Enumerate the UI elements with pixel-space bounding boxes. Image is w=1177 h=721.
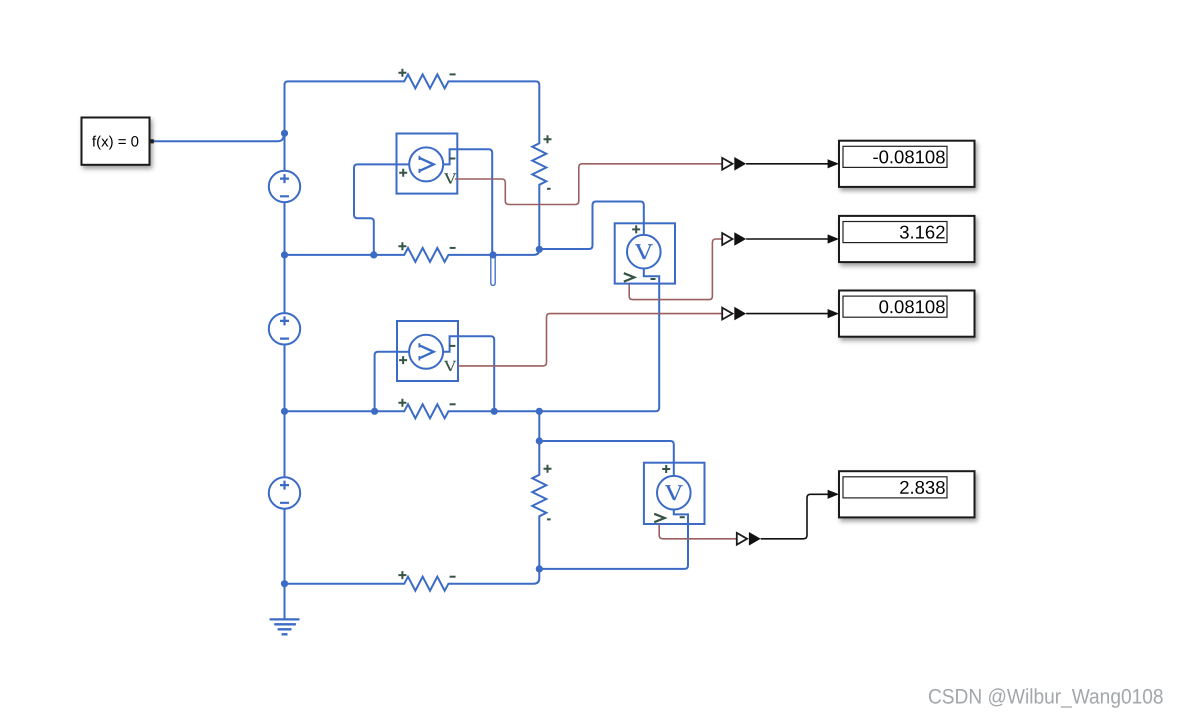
svg-text:0.08108: 0.08108 [879, 296, 946, 317]
svg-text:2.838: 2.838 [899, 477, 945, 498]
svg-text:-0.08108: -0.08108 [872, 146, 945, 167]
svg-text:3.162: 3.162 [899, 221, 945, 242]
svg-text:f(x) = 0: f(x) = 0 [92, 133, 139, 150]
svg-text:CSDN @Wilbur_Wang0108: CSDN @Wilbur_Wang0108 [928, 685, 1164, 708]
